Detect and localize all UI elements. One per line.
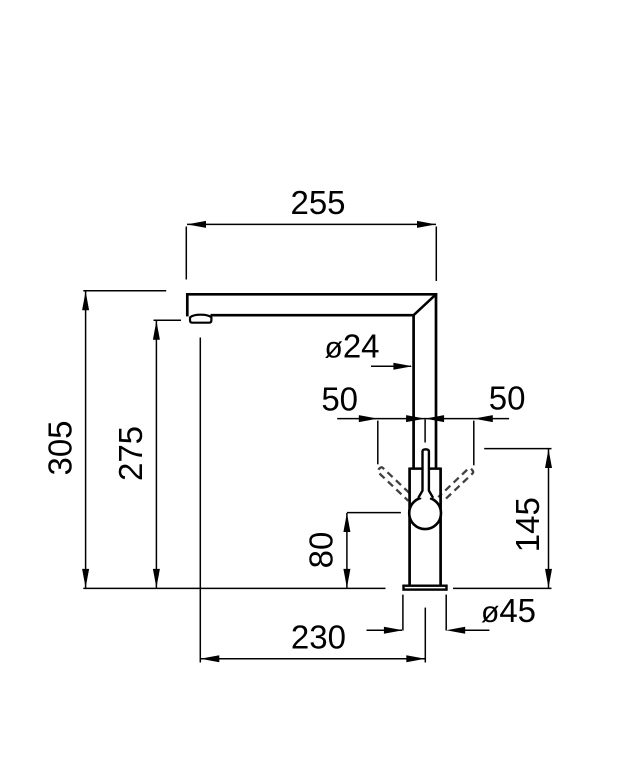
svg-text:50: 50 [321,381,358,418]
svg-text:80: 80 [303,532,340,569]
svg-text:230: 230 [291,619,346,656]
svg-text:50: 50 [489,380,526,417]
svg-text:ø24: ø24 [325,328,380,365]
svg-text:ø45: ø45 [481,592,536,629]
svg-text:305: 305 [42,420,79,475]
svg-text:145: 145 [509,497,546,552]
svg-text:275: 275 [112,426,149,481]
svg-text:255: 255 [290,184,345,221]
